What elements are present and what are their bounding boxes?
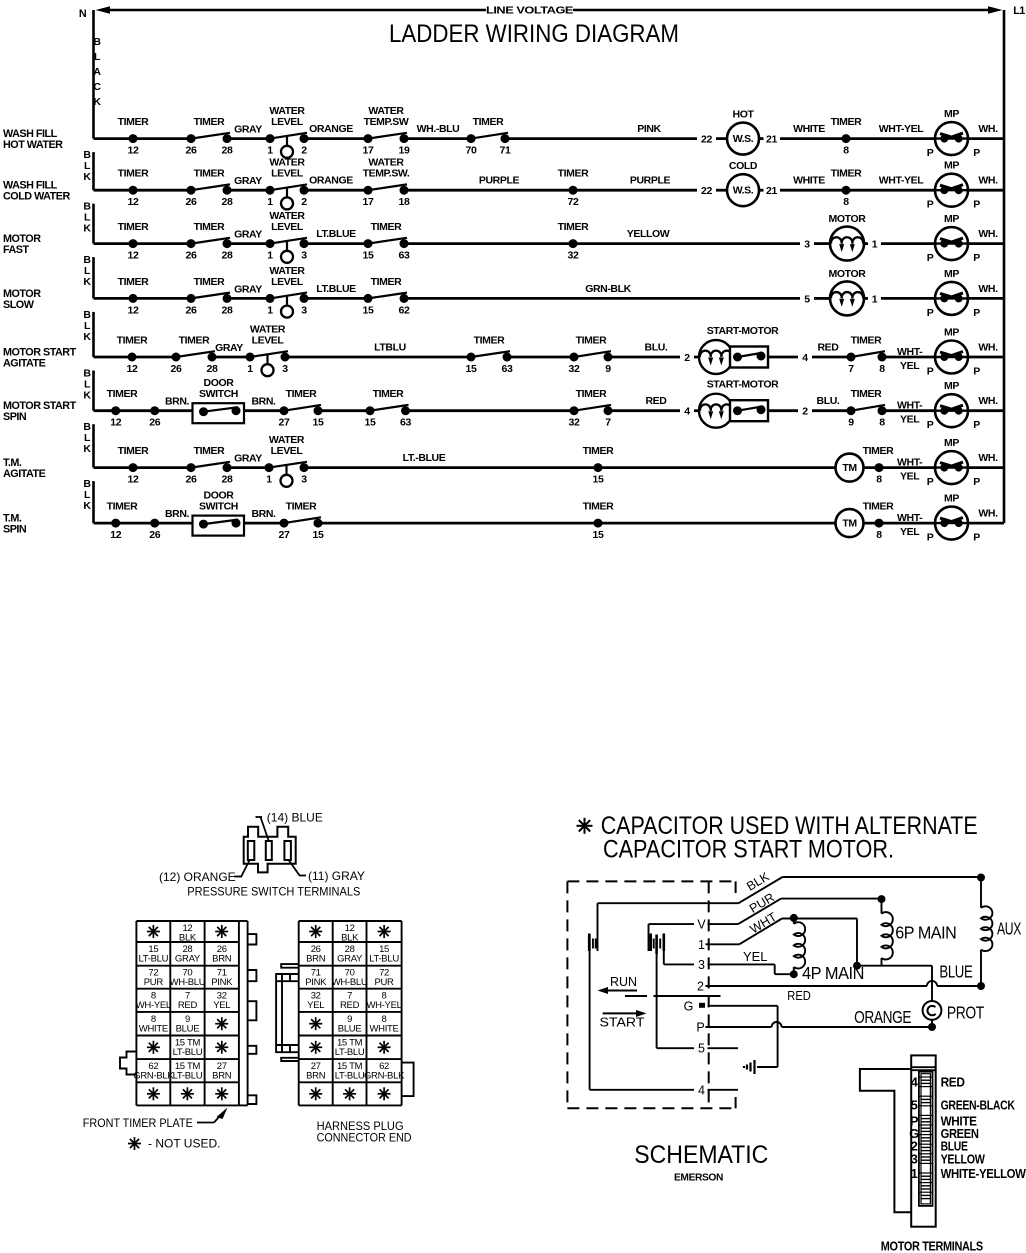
svg-text:1: 1: [872, 239, 878, 251]
svg-text:TIMER: TIMER: [474, 335, 505, 347]
harness plug r2c1 terminal 26 BRN: [306, 944, 326, 965]
svg-text:GRAY: GRAY: [234, 229, 262, 241]
svg-text:COLD WATER: COLD WATER: [3, 191, 70, 203]
timer switch 70-71 (rung 1): [467, 133, 510, 143]
svg-text:12: 12: [128, 474, 139, 486]
svg-text:WH.-BLU: WH.-BLU: [417, 123, 460, 135]
svg-text:9: 9: [605, 363, 611, 375]
junction dot 4P bottom: [790, 970, 798, 978]
harness plug r8c1 not used: [309, 1087, 322, 1100]
left rail BLACK label: [93, 36, 101, 108]
svg-text:TIMER: TIMER: [107, 388, 138, 400]
water level switch 1-3 (rung 3): [266, 238, 309, 263]
svg-text:1: 1: [266, 474, 272, 486]
timer terminal strip dashed line: [708, 881, 710, 1108]
svg-text:63: 63: [400, 417, 411, 429]
front timer plate r5c3 not used: [215, 1017, 228, 1030]
wire PUR lead (terminal V): [649, 899, 882, 925]
svg-text:9: 9: [848, 417, 854, 429]
timer switch 15-62 (rung 4): [364, 293, 409, 303]
svg-text:TIMER: TIMER: [118, 168, 149, 180]
svg-text:LT-BLU: LT-BLU: [173, 1071, 203, 1082]
svg-text:MP: MP: [944, 437, 959, 449]
svg-text:K: K: [83, 171, 91, 183]
svg-text:PUR: PUR: [144, 977, 164, 988]
svg-text:PROT: PROT: [947, 1003, 985, 1023]
svg-text:6P MAIN: 6P MAIN: [895, 923, 956, 943]
run cam (left): [589, 903, 597, 951]
label WHT-YEL (rung 8): [897, 512, 923, 538]
svg-text:(11) GRAY: (11) GRAY: [308, 869, 365, 883]
svg-text:WHITE: WHITE: [793, 175, 825, 187]
wire WHT lead (terminal 1): [706, 919, 858, 945]
svg-text:MOTOR: MOTOR: [829, 268, 867, 280]
svg-text:TIMER: TIMER: [118, 276, 149, 288]
timer switch 15-63 (rung 5): [467, 351, 512, 361]
svg-text:BLU.: BLU.: [817, 395, 840, 407]
rung 6 wire: [94, 409, 1005, 412]
svg-text:LADDER WIRING DIAGRAM: LADDER WIRING DIAGRAM: [389, 20, 679, 48]
svg-text:21: 21: [766, 185, 777, 197]
start-motor relay (rung 5): [699, 325, 779, 374]
harness plug r3c2 terminal 70 WH-BLU: [332, 968, 368, 989]
rung 7 wire: [94, 466, 1005, 469]
svg-text:P: P: [927, 307, 934, 319]
harness plug r5c2 terminal 9 BLUE: [338, 1014, 362, 1035]
svg-text:18: 18: [399, 196, 410, 208]
svg-text:WHT-: WHT-: [897, 512, 923, 524]
svg-text:WH-YEL: WH-YEL: [366, 1000, 401, 1011]
harness plug r3c3 terminal 72 PUR: [374, 968, 394, 989]
svg-text:8: 8: [843, 145, 849, 157]
start-motor relay (rung 6): [699, 379, 779, 428]
wire RED (terminal 2 to AUX) with hop: [706, 981, 982, 986]
svg-text:12: 12: [128, 145, 139, 157]
svg-text:BRN.: BRN.: [251, 396, 276, 408]
svg-text:LEVEL: LEVEL: [271, 168, 304, 180]
front timer plate r1c2 terminal 12 BLK: [179, 923, 197, 944]
svg-text:CAPACITOR START MOTOR.: CAPACITOR START MOTOR.: [603, 836, 894, 864]
svg-text:TIMER: TIMER: [583, 445, 614, 457]
svg-text:LT-BLU: LT-BLU: [369, 954, 399, 965]
svg-text:26: 26: [186, 250, 197, 262]
svg-text:P: P: [927, 532, 934, 544]
svg-text:WHT-YEL: WHT-YEL: [879, 175, 924, 187]
svg-text:PINK: PINK: [211, 977, 233, 988]
leader (11) GRAY: [289, 860, 365, 883]
svg-text:PUR: PUR: [374, 977, 394, 988]
svg-text:2: 2: [802, 406, 808, 418]
svg-text:W.S.: W.S.: [733, 133, 754, 145]
harness plug r7c1 terminal 27 BRN: [306, 1061, 326, 1082]
leader (14) BLUE: [256, 811, 323, 841]
svg-text:GRAY: GRAY: [234, 175, 262, 187]
timer contact 15 (rung 8): [583, 501, 614, 541]
G terminal mark: [699, 1003, 705, 1008]
svg-text:RED: RED: [818, 342, 840, 354]
svg-text:ORANGE: ORANGE: [309, 175, 353, 187]
water level switch 1-3 (rung 7): [265, 462, 309, 487]
svg-text:(12) ORANGE: (12) ORANGE: [159, 870, 236, 884]
wire BLUE (to protector): [857, 966, 932, 1001]
harness plug r6c3 not used: [378, 1041, 391, 1054]
svg-text:SPIN: SPIN: [3, 411, 27, 423]
timer contact 8 (rung 8): [863, 501, 894, 541]
svg-text:GREEN-BLACK: GREEN-BLACK: [941, 1098, 1016, 1113]
svg-text:P: P: [927, 476, 934, 488]
svg-text:12: 12: [110, 417, 121, 429]
svg-text:15: 15: [593, 529, 604, 541]
svg-text:2: 2: [301, 196, 307, 208]
wire cam to terminal 4: [590, 948, 694, 1090]
junction dot PUR/6P top: [878, 895, 886, 903]
timer contact 12 (rung 7): [118, 445, 149, 486]
svg-text:12: 12: [110, 529, 121, 541]
svg-text:32: 32: [568, 250, 579, 262]
svg-text:26: 26: [186, 474, 197, 486]
harness plug r2c3 terminal 15 LT-BLU: [369, 944, 399, 965]
svg-text:COLD: COLD: [729, 160, 758, 172]
svg-text:V: V: [697, 918, 706, 932]
label WHT-YEL (rung 5): [897, 346, 923, 372]
svg-text:BLUE: BLUE: [338, 1023, 362, 1034]
svg-text:1: 1: [267, 196, 273, 208]
door switch (rung 8): [193, 490, 245, 536]
svg-text:P: P: [927, 199, 934, 211]
timer switch 7-8 (rung 5): [847, 351, 887, 361]
water solenoid W.S. hot: [727, 109, 759, 155]
svg-text:22: 22: [701, 134, 712, 146]
harness plug r5c3 terminal 8 WHITE: [369, 1014, 398, 1035]
wire G to ground: [708, 1006, 778, 1067]
timer contact 12 (rung 5): [117, 335, 148, 376]
svg-text:28: 28: [222, 145, 233, 157]
front timer plate r3c1 terminal 72 PUR: [144, 968, 164, 989]
svg-text:8: 8: [879, 417, 885, 429]
harness plug r7c3 terminal 62 GRN-BLK: [364, 1061, 405, 1082]
svg-text:TIMER: TIMER: [194, 276, 225, 288]
main winding 4P MAIN: [794, 918, 864, 983]
front timer plate r6c3 not used: [215, 1041, 228, 1054]
svg-text:P: P: [973, 366, 980, 378]
svg-text:PRESSURE SWITCH TERMINALS: PRESSURE SWITCH TERMINALS: [187, 885, 360, 899]
timer contact 12 (rung 3): [118, 221, 149, 262]
terminal 5 outside stub: [708, 1047, 739, 1049]
RUN arrow: [598, 975, 638, 994]
svg-text:BRN: BRN: [212, 954, 232, 965]
svg-text:LT.BLUE: LT.BLUE: [316, 228, 356, 240]
svg-text:TIMER: TIMER: [118, 116, 149, 128]
svg-text:G: G: [684, 999, 694, 1013]
svg-text:WH.: WH.: [978, 508, 998, 520]
motor protector MP (rung 3): [927, 213, 981, 264]
pressure switch terminal slot 11: [284, 841, 291, 860]
svg-text:LEVEL: LEVEL: [271, 116, 304, 128]
svg-text:TIMER: TIMER: [863, 501, 894, 513]
svg-text:TIMER: TIMER: [194, 221, 225, 233]
water temp switch 17-19 (rung 1): [364, 133, 409, 143]
svg-text:AUX: AUX: [997, 919, 1022, 939]
wire WHT vertical to BLUE line: [856, 919, 858, 966]
front timer plate left key notch: [120, 1052, 136, 1075]
svg-text:YEL: YEL: [900, 360, 920, 372]
svg-text:12: 12: [127, 363, 138, 375]
svg-text:28: 28: [222, 250, 233, 262]
svg-text:28: 28: [222, 304, 233, 316]
rung 1 wire: [94, 137, 1005, 140]
svg-text:15: 15: [466, 363, 477, 375]
timer contact 72 (rung 2): [558, 168, 589, 209]
svg-text:WH-YEL: WH-YEL: [136, 1000, 171, 1011]
motor terminal G GREEN: [909, 1126, 978, 1141]
svg-text:P: P: [927, 252, 934, 264]
pressure switch terminal slot 12: [248, 841, 255, 860]
timer contact 12 (rung 1): [118, 116, 149, 157]
front timer plate r7c2 terminal 15 TM LT-BLU: [173, 1061, 203, 1082]
svg-text:1: 1: [872, 293, 878, 305]
svg-text:P: P: [927, 419, 934, 431]
svg-text:28: 28: [222, 474, 233, 486]
BLK labels on left rail: [83, 149, 91, 512]
front timer plate r5c2 terminal 9 BLUE: [176, 1014, 200, 1035]
svg-text:8: 8: [876, 529, 882, 541]
harness plug left bracket: [276, 974, 299, 1052]
svg-text:- NOT USED.: - NOT USED.: [148, 1137, 220, 1151]
svg-text:MP: MP: [944, 160, 959, 172]
svg-text:K: K: [83, 223, 91, 235]
svg-text:SCHEMATIC: SCHEMATIC: [634, 1141, 768, 1169]
svg-text:P: P: [927, 366, 934, 378]
svg-text:PURPLE: PURPLE: [479, 175, 520, 187]
svg-text:3: 3: [301, 304, 307, 316]
timer switch 26-28 (rung 5): [172, 351, 217, 361]
svg-text:BLUE: BLUE: [176, 1023, 200, 1034]
svg-text:RED: RED: [340, 1000, 360, 1011]
harness plug r1c2 terminal 12 BLK: [341, 923, 359, 944]
water level switch 1-2 (rung 1): [266, 133, 309, 158]
motor terminal block outer: [911, 1055, 936, 1226]
svg-text:WH.: WH.: [978, 175, 998, 187]
line voltage top wire: [96, 5, 1003, 17]
harness plug grid: [299, 921, 402, 1105]
svg-text:RED: RED: [787, 989, 811, 1003]
svg-text:26: 26: [149, 417, 160, 429]
svg-text:8: 8: [879, 363, 885, 375]
svg-text:TIMER: TIMER: [473, 116, 504, 128]
rung 4 wire: [94, 297, 1005, 300]
svg-text:START: START: [600, 1016, 645, 1030]
svg-text:WHITE: WHITE: [369, 1023, 398, 1034]
svg-text:28: 28: [222, 196, 233, 208]
svg-text:YEL: YEL: [900, 414, 920, 426]
svg-text:17: 17: [363, 145, 374, 157]
svg-text:YELLOW: YELLOW: [941, 1151, 986, 1166]
junction dot RED/AUX bottom: [977, 982, 985, 990]
svg-text:P: P: [927, 147, 934, 159]
water solenoid W.S. cold: [727, 160, 759, 206]
front timer plate r4c3 terminal 32 YEL: [213, 991, 230, 1012]
motor protector MP (rung 1): [927, 108, 981, 159]
svg-text:5: 5: [911, 1098, 918, 1113]
harness plug r8c3 not used: [378, 1087, 391, 1100]
svg-text:SPIN: SPIN: [3, 524, 27, 536]
svg-text:7: 7: [605, 417, 611, 429]
harness plug r5c1 not used: [309, 1017, 322, 1030]
svg-text:YEL: YEL: [900, 471, 920, 483]
svg-text:26: 26: [186, 304, 197, 316]
svg-text:K: K: [83, 500, 91, 512]
svg-text:71: 71: [500, 145, 511, 157]
svg-text:WH.: WH.: [978, 123, 998, 135]
svg-text:TM: TM: [842, 518, 857, 530]
svg-text:15: 15: [363, 250, 374, 262]
door switch (rung 6): [193, 377, 245, 423]
harness plug left tabs: [281, 964, 299, 1061]
svg-text:GRAY: GRAY: [234, 124, 262, 136]
timer switch 9-8 (rung 6): [847, 405, 887, 415]
motor terminal cells: [919, 1077, 933, 1199]
svg-text:P: P: [973, 307, 980, 319]
capacitor note: [577, 812, 978, 864]
front timer plate r3c3 terminal 71 PINK: [211, 968, 233, 989]
svg-text:TIMER: TIMER: [286, 388, 317, 400]
svg-text:15: 15: [593, 474, 604, 486]
terminal 4 outside stub: [708, 1089, 739, 1091]
svg-text:BRN: BRN: [306, 954, 326, 965]
timer motor TM (rung 8): [836, 509, 864, 537]
svg-text:12: 12: [128, 196, 139, 208]
water level switch 1-3 (rung 5): [246, 351, 290, 376]
timer contact 12 (rung 8): [107, 501, 138, 541]
harness plug caption: [317, 1119, 412, 1145]
harness plug r6c1 not used: [309, 1041, 322, 1054]
leader (12) ORANGE: [159, 860, 250, 884]
harness plug r8c2 not used: [343, 1087, 356, 1100]
svg-text:4: 4: [698, 1083, 705, 1097]
svg-text:26: 26: [171, 363, 182, 375]
svg-text:LEVEL: LEVEL: [271, 445, 304, 457]
start cam (right): [649, 924, 664, 954]
svg-text:MP: MP: [944, 268, 959, 280]
svg-text:HOT WATER: HOT WATER: [3, 139, 63, 151]
svg-text:3: 3: [282, 363, 288, 375]
label WHT-YEL (rung 7): [897, 457, 923, 483]
svg-text:2: 2: [697, 980, 704, 994]
svg-text:WHITE: WHITE: [139, 1023, 168, 1034]
svg-text:GRN-BLK: GRN-BLK: [585, 283, 631, 295]
svg-text:ORANGE: ORANGE: [309, 123, 353, 135]
svg-text:K: K: [83, 390, 91, 402]
wire start cam to terminal 5: [657, 953, 694, 1048]
timer contact 26 (rung 6): [149, 406, 160, 429]
svg-text:K: K: [83, 331, 91, 343]
svg-text:TIMER: TIMER: [831, 168, 862, 180]
svg-text:AGITATE: AGITATE: [3, 358, 46, 370]
svg-text:LT-BLU: LT-BLU: [138, 954, 168, 965]
svg-text:GRN-BLK: GRN-BLK: [133, 1071, 174, 1082]
svg-text:MP: MP: [944, 213, 959, 225]
timer switch 32-7 (rung 6): [570, 405, 613, 415]
harness plug r1c3 not used: [378, 925, 391, 938]
front timer plate r1c1 not used: [147, 925, 160, 938]
svg-text:TIMER: TIMER: [371, 276, 402, 288]
svg-text:1: 1: [911, 1166, 918, 1181]
svg-text:PINK: PINK: [637, 123, 661, 135]
svg-text:2: 2: [684, 352, 690, 364]
svg-text:LT.-BLUE: LT.-BLUE: [403, 452, 446, 464]
timer contact 26 (rung 8): [149, 519, 160, 542]
timer switch 26-28 (rung 2): [187, 184, 232, 194]
timer switch 26-28 (rung 1): [187, 133, 232, 143]
motor connector plate: [860, 1069, 911, 1212]
rung 5 wire: [94, 356, 1005, 359]
motor protector MP (rung 6): [927, 380, 981, 431]
svg-text:WHT-: WHT-: [897, 400, 923, 412]
timer contact 8 (rung 1): [831, 116, 862, 157]
motor terminal P WHITE: [910, 1113, 977, 1128]
svg-text:TIMER: TIMER: [371, 221, 402, 233]
motor protector MP (rung 4): [927, 268, 981, 319]
svg-text:YEL: YEL: [900, 526, 920, 538]
timer dashed outline box: [567, 881, 735, 1108]
pressure switch connector body: [244, 827, 296, 873]
svg-text:PINK: PINK: [305, 977, 327, 988]
svg-text:TIMER: TIMER: [286, 501, 317, 513]
svg-text:MP: MP: [944, 327, 959, 339]
protector PROT: [923, 1001, 985, 1023]
svg-text:K: K: [83, 443, 91, 455]
wire YEL (terminal 3 to 4P): [708, 964, 794, 974]
harness plug right bump: [402, 1063, 414, 1097]
svg-text:TIMER: TIMER: [179, 335, 210, 347]
svg-text:ORANGE: ORANGE: [854, 1007, 911, 1027]
svg-text:BRN: BRN: [212, 1071, 232, 1082]
rung 3 wire: [94, 242, 1005, 245]
svg-text:N: N: [79, 8, 87, 20]
front timer plate r5c1 terminal 8 WHITE: [139, 1014, 168, 1035]
svg-text:SLOW: SLOW: [3, 299, 35, 311]
svg-text:15: 15: [313, 417, 324, 429]
rung 2 wire: [94, 189, 1005, 192]
motor protector MP (rung 8): [927, 493, 981, 544]
svg-text:GRAY: GRAY: [175, 954, 201, 965]
rung 8 wire: [94, 522, 1005, 525]
svg-text:MOTOR TERMINALS: MOTOR TERMINALS: [881, 1239, 984, 1253]
svg-text:27: 27: [279, 417, 290, 429]
svg-text:TIMER: TIMER: [194, 116, 225, 128]
right rail L1: [1003, 10, 1006, 523]
svg-text:TM: TM: [842, 462, 857, 474]
svg-text:15: 15: [313, 529, 324, 541]
svg-text:P: P: [973, 476, 980, 488]
svg-text:BRN.: BRN.: [165, 396, 190, 408]
svg-text:TIMER: TIMER: [576, 388, 607, 400]
motor terminal 2 BLUE: [911, 1139, 969, 1154]
svg-text:LTBLU: LTBLU: [374, 342, 406, 354]
svg-text:WH.: WH.: [978, 228, 998, 240]
svg-text:WH-BLU: WH-BLU: [332, 977, 368, 988]
junction dot PROT/ORANGE: [928, 1023, 936, 1031]
wire ORANGE (terminal P) with hop: [706, 1022, 933, 1027]
timer contact 12 (rung 2): [118, 168, 149, 209]
svg-text:GRN-BLK: GRN-BLK: [364, 1071, 405, 1082]
harness plug r6c2 terminal 15 TM LT-BLU: [335, 1038, 365, 1059]
timer motor TM (rung 7): [836, 454, 864, 482]
motor terminal block cap lines: [911, 1067, 936, 1070]
front timer plate r8c2 not used: [181, 1087, 194, 1100]
harness plug r4c3 terminal 8 WH-YEL: [366, 991, 401, 1012]
svg-text:LT-BLU: LT-BLU: [335, 1071, 365, 1082]
